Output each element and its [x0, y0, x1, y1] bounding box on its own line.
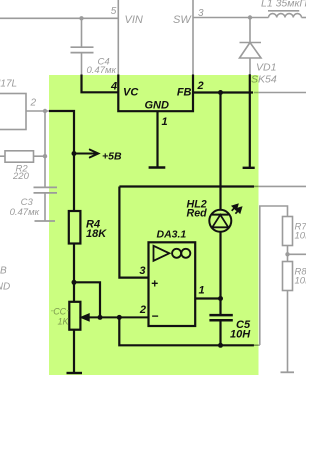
wire diode to ground black	[249, 74, 251, 167]
resistor R7	[283, 217, 293, 246]
wire branch to wiper net	[74, 282, 100, 317]
svg-text:10H: 10H	[230, 329, 251, 341]
resistor divider chain right: wire R7 top	[260, 206, 288, 345]
node junction diode top	[248, 15, 252, 19]
node junction on VIN rail	[79, 16, 83, 20]
svg-text:VD1: VD1	[256, 62, 276, 74]
ground diode net	[243, 167, 255, 169]
ground pot	[67, 372, 83, 374]
wire FB net gray continuation right	[254, 185, 259, 187]
node junction FB/LED	[218, 90, 223, 95]
wire C3 to ground	[44, 193, 46, 221]
wire pot to ground	[73, 330, 75, 373]
svg-text:5: 5	[111, 6, 117, 17]
svg-text:2: 2	[30, 98, 37, 109]
svg-text:SW: SW	[173, 14, 192, 26]
wire FB net	[193, 91, 253, 93]
ground R8	[281, 371, 295, 373]
IC box at left edge (…17L, partially off-image)	[0, 94, 26, 130]
wire C4 lead black part to pin 4	[82, 75, 119, 93]
node junction wiper-right	[117, 315, 122, 320]
node junction pot top branch	[72, 280, 77, 285]
svg-text:1K: 1K	[57, 317, 69, 327]
svg-text:H17L: H17L	[0, 79, 17, 90]
node junction left	[43, 109, 47, 113]
svg-text:FB: FB	[177, 87, 192, 99]
wire bottom common net	[119, 317, 254, 345]
wiper arrow	[82, 315, 149, 321]
svg-text:−: −	[152, 309, 159, 323]
wire pin2 to selection	[26, 110, 49, 112]
op-amp DA3.1 box	[149, 242, 196, 326]
wire output rail right of selection	[254, 92, 259, 94]
op-amp infinity symbol	[172, 249, 190, 258]
wire GND pin to ground	[156, 111, 158, 167]
wire SW to diode node	[193, 17, 269, 19]
wire C4 top lead	[81, 18, 83, 47]
wire FB feedback horizontal	[119, 185, 254, 187]
resistor R8	[283, 262, 293, 291]
LED arrows	[232, 205, 242, 214]
wire R7-R8	[287, 246, 289, 262]
wire R2 node to C3	[44, 156, 46, 187]
wire to op-amp input3	[119, 187, 148, 278]
node junction wiper-left	[98, 315, 103, 320]
svg-text:1: 1	[199, 285, 205, 297]
svg-text:18K: 18K	[86, 228, 107, 240]
node junction R2	[43, 154, 47, 158]
IC U1 box black part	[118, 75, 193, 112]
svg-text:GND: GND	[145, 100, 170, 112]
capacitor C4	[71, 47, 94, 52]
wire VIN rail top-left	[0, 17, 118, 19]
svg-text:Red: Red	[187, 208, 208, 220]
resistor R4	[69, 211, 81, 244]
wire R4 to pot	[73, 244, 75, 302]
svg-text:0.47мк: 0.47мк	[87, 65, 117, 76]
node junction C5 bottom	[218, 343, 223, 348]
svg-text:0.47мк: 0.47мк	[10, 207, 40, 218]
wire divider tap right	[288, 253, 307, 255]
inductor L1	[268, 11, 306, 18]
svg-text:+5B: +5B	[102, 151, 122, 163]
wire left input net	[49, 111, 74, 211]
wire C4 bottom lead (gray above selection)	[81, 53, 83, 75]
resistor R2	[0, 151, 45, 162]
potentiometer CC 1K	[69, 302, 80, 330]
wire LED top	[219, 93, 221, 211]
capacitor C5	[209, 315, 232, 320]
wire down to R2 node	[44, 111, 46, 156]
svg-text:L1 35мкГн: L1 35мкГн	[261, 0, 306, 9]
wire output pin1	[195, 297, 220, 299]
IC U1 regulator box upper part (gray, top cut off)	[118, 0, 193, 75]
selection highlight green area	[49, 75, 259, 375]
svg-text:DA3.1: DA3.1	[157, 229, 187, 241]
wire R8 to ground	[287, 291, 289, 373]
ground IC	[149, 166, 166, 168]
svg-text:2: 2	[197, 80, 204, 92]
capacitor C3	[34, 187, 58, 193]
diode VD1	[240, 18, 262, 75]
svg-text:1: 1	[162, 116, 168, 128]
ground C3	[35, 220, 56, 222]
node junction divider	[285, 252, 289, 256]
svg-text:220: 220	[12, 171, 30, 182]
LED HL2	[209, 210, 231, 232]
svg-text:4: 4	[110, 81, 117, 93]
svg-text:10К: 10К	[295, 231, 307, 242]
wire stub to C5 net	[253, 344, 259, 346]
svg-text:+: +	[151, 277, 158, 291]
svg-text:SK54: SK54	[251, 74, 277, 86]
wire C5 bottom	[219, 320, 221, 345]
node junction +5B	[72, 151, 77, 156]
node junction output	[218, 296, 223, 301]
wire LED bottom	[219, 232, 221, 315]
svg-text:VIN: VIN	[125, 14, 143, 26]
svg-text:3: 3	[139, 265, 145, 277]
svg-text:VC: VC	[123, 87, 139, 99]
svg-text:10К: 10К	[295, 276, 307, 287]
svg-text:GND: GND	[0, 282, 10, 293]
op-amp triangle symbol	[154, 246, 170, 261]
svg-text:2: 2	[139, 304, 146, 316]
svg-text:5B: 5B	[0, 266, 7, 277]
net arrow +5B	[74, 150, 98, 158]
